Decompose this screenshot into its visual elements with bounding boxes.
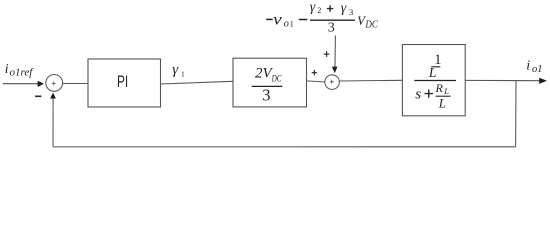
block 2Vdc/3: [233, 58, 307, 107]
svg-text:DC: DC: [271, 74, 282, 84]
svg-text:L: L: [443, 86, 449, 96]
svg-text:R: R: [435, 81, 444, 95]
svg-text:2: 2: [317, 6, 321, 15]
svg-text:3: 3: [262, 85, 270, 104]
wire S2 to transfer-function block: [339, 79, 402, 82]
wire PI to 2Vdc/3 block: [161, 81, 234, 84]
svg-text:γ: γ: [341, 1, 347, 16]
svg-text:3: 3: [328, 21, 335, 36]
minus sign (feedback input of S1): [35, 95, 41, 97]
svg-text:L: L: [428, 65, 437, 80]
summing junction S1: [46, 75, 63, 92]
svg-text:o: o: [284, 18, 289, 29]
plus sign inside S1: [52, 82, 56, 86]
wire S1 to PI block: [63, 83, 88, 85]
wire input arrow into summing junction S1: [3, 83, 39, 85]
svg-text:PI: PI: [117, 73, 128, 91]
block 1/L over s+RL/L: [402, 45, 465, 116]
wire output with arrow: [465, 79, 540, 81]
wire 2Vdc/3 to summing junction S2: [307, 81, 325, 82]
wire feedback: bottom run: [53, 146, 516, 148]
wire feedback: vertical drop from output line: [515, 80, 517, 146]
summing junction S2: [325, 75, 340, 90]
svg-text:s: s: [415, 86, 421, 102]
plus sign (horizontal input of S2): [312, 70, 317, 75]
svg-text:1: 1: [181, 70, 185, 79]
svg-text:v: v: [273, 11, 282, 28]
svg-text:γ: γ: [310, 0, 316, 15]
block PI: [88, 59, 161, 107]
svg-text:3: 3: [349, 7, 353, 17]
svg-text:1: 1: [290, 18, 294, 28]
plus sign (vertical input of S2): [324, 51, 330, 57]
wire vertical arrow into S2 from top label: [334, 36, 336, 68]
svg-text:DC: DC: [365, 19, 379, 30]
svg-text:L: L: [438, 95, 446, 110]
node top label -v_o1 -(g2+g3)/3 Vdc: [266, 0, 378, 35]
wire feedback: left rise into S1: [52, 98, 54, 147]
plus sign inside S2: [330, 80, 334, 84]
